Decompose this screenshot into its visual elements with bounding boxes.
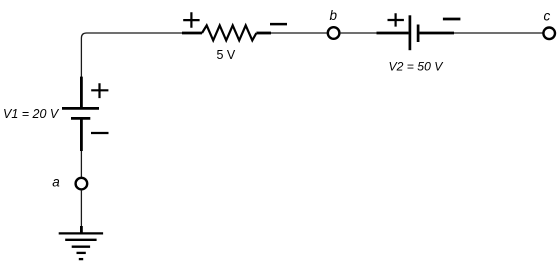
battery V2 xyxy=(377,15,455,50)
svg-text:V2 = 50 V: V2 = 50 V xyxy=(389,60,445,74)
wire: resistor to node b xyxy=(271,32,328,34)
resistor R (5 V) xyxy=(182,25,271,40)
wire: node a to ground xyxy=(80,190,82,226)
wire: battery V2 to node c xyxy=(454,32,543,34)
node a xyxy=(76,178,88,190)
polarity + (resistor left) xyxy=(183,12,199,28)
polarity − (battery V1) xyxy=(91,132,109,134)
wire: battery V1 top lead up and right to resistor xyxy=(81,33,182,77)
battery V1 xyxy=(62,77,99,151)
polarity − (battery V2) xyxy=(443,18,461,21)
svg-text:V1 = 20 V: V1 = 20 V xyxy=(3,107,60,121)
node b xyxy=(328,27,340,39)
svg-text:c: c xyxy=(544,9,551,24)
svg-text:5 V: 5 V xyxy=(217,48,236,62)
polarity + (battery V2) xyxy=(388,13,404,26)
node c xyxy=(543,28,555,40)
wire: battery V1 to node a xyxy=(80,151,82,178)
svg-text:a: a xyxy=(52,175,60,190)
wire: node b to battery V2 xyxy=(340,32,377,34)
svg-text:b: b xyxy=(330,8,338,23)
polarity + (battery V1) xyxy=(91,83,108,98)
ground xyxy=(59,226,103,259)
polarity − (resistor right) xyxy=(270,23,287,26)
